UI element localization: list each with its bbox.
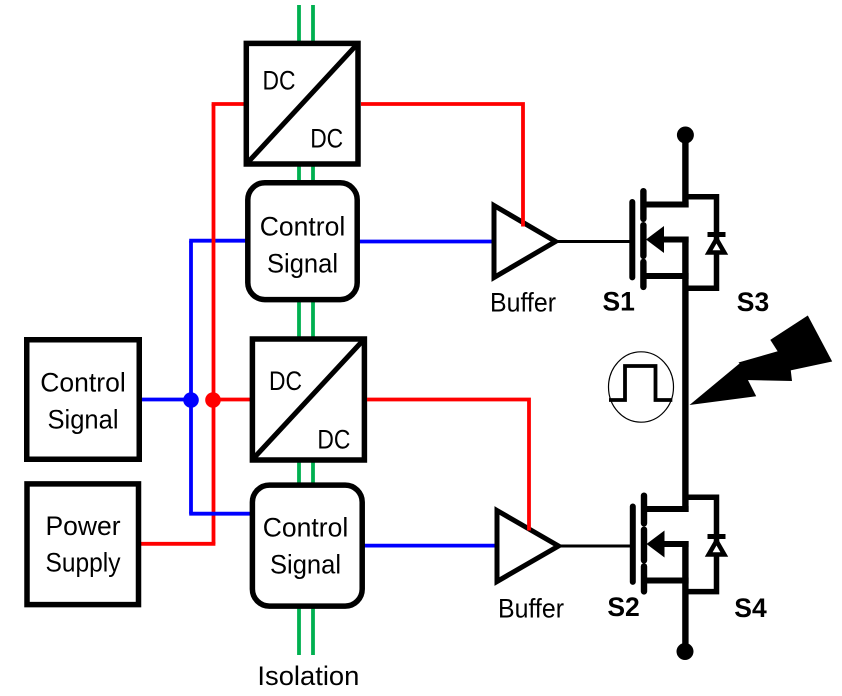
S1 source connection	[643, 273, 688, 279]
svg-text:S2: S2	[607, 592, 639, 622]
S1 drain connection	[643, 202, 688, 208]
wire: gate lead buffer A2 to S2	[559, 545, 633, 548]
svg-text:DC: DC	[317, 424, 350, 454]
svg-text:DC: DC	[269, 366, 302, 396]
svg-text:Buffer: Buffer	[498, 594, 564, 624]
wire: rail S2 source to bottom terminal	[682, 541, 688, 645]
svg-text:Signal: Signal	[270, 550, 341, 580]
S2 channel segment (drain)	[641, 496, 647, 524]
body diode S3 branch	[686, 197, 717, 289]
svg-text:Control: Control	[260, 212, 345, 242]
svg-text:Power: Power	[45, 511, 120, 541]
svg-text:Signal: Signal	[267, 249, 338, 279]
S1 body connection	[662, 237, 689, 243]
diode S4 cathode bar	[708, 534, 726, 539]
wire: red from Power Supply to bus	[139, 542, 215, 546]
terminal: bottom node dot	[677, 643, 694, 660]
lightning bolt head	[770, 316, 832, 371]
S2 drain connection	[644, 506, 689, 512]
svg-text:DC: DC	[310, 124, 343, 154]
wire: gate lead buffer A1 to S1	[556, 240, 633, 243]
S1 channel segment (source)	[640, 262, 646, 287]
S2 body connection	[663, 541, 689, 547]
svg-text:Signal: Signal	[48, 405, 119, 435]
wire: drain rail from top terminal to S1	[682, 135, 688, 208]
S1 body arrow head	[646, 226, 664, 253]
svg-text:Supply: Supply	[46, 548, 122, 578]
S1 channel segment (body)	[640, 225, 646, 256]
MOSFET S1	[632, 191, 688, 287]
svg-text:DC: DC	[263, 65, 296, 95]
diode S3 triangle	[709, 239, 725, 253]
wire: red from DC/DC U1 output to buffer A1 supply	[361, 104, 523, 227]
S2 channel segment (body)	[641, 530, 647, 561]
svg-text:S3: S3	[737, 287, 769, 317]
block: DC/DC converter U1 (top)	[246, 43, 358, 164]
buffer A2 (triangle)	[497, 511, 559, 582]
isolation barrier (green pair below U4)	[299, 607, 313, 655]
wire: blue from bus to Control Signal isolator U4 input	[189, 512, 251, 516]
svg-text:Control: Control	[263, 512, 348, 542]
block: Control Signal isolator U4	[252, 485, 362, 606]
wire: blue from left Control Signal source to node J1	[139, 398, 193, 402]
isolation barrier (green pair above DC/DC U1)	[299, 5, 313, 41]
isolation barrier (green pair between DC/DC U1 and Control Signal isolator U2)	[299, 165, 313, 181]
lightning bolt (fault/EMI symbol) tail	[690, 364, 757, 406]
block: Control Signal source (left)	[27, 340, 140, 460]
wire: blue from U2 output to buffer A1 input	[358, 240, 496, 244]
buffer A1 (triangle)	[494, 206, 556, 278]
diode S4 triangle	[709, 541, 725, 555]
MOSFET S2	[633, 496, 689, 592]
body diode S4 branch	[686, 497, 717, 591]
block: DC/DC converter U3 (middle)	[252, 339, 364, 460]
S2 source connection	[644, 578, 689, 584]
isolation barrier (green pair between DC/DC U3 and Control Signal isolator U4)	[299, 461, 313, 486]
wire: red from DC/DC U3 output to buffer A2 supply	[367, 400, 529, 531]
wire: blue from U4 output to buffer A2 input	[361, 544, 499, 548]
lightning bolt middle chevron	[739, 348, 793, 381]
svg-text:Control: Control	[40, 367, 125, 397]
junction J1 (blue dot)	[183, 392, 199, 408]
S2 gate bar	[630, 507, 636, 582]
junction J2 (red dot)	[205, 392, 221, 408]
isolation barrier (green pair between U2 and DC/DC U3)	[299, 301, 313, 338]
wire: red power bus vertical	[212, 104, 216, 544]
S2 body arrow head	[647, 531, 665, 558]
block: Power Supply	[27, 484, 139, 605]
wire: blue from bus to Control Signal isolator U2 input	[189, 239, 247, 243]
S1 channel segment (drain)	[640, 191, 646, 219]
svg-text:Isolation: Isolation	[257, 661, 359, 691]
pulse source symbol (circle)	[609, 352, 674, 422]
block: Control Signal isolator U2	[248, 183, 357, 300]
svg-text:Buffer: Buffer	[490, 288, 556, 318]
svg-text:S1: S1	[602, 287, 634, 317]
S2 channel segment (source)	[641, 566, 647, 591]
wire: switch-node rail S1 source to S2 drain	[682, 237, 688, 513]
terminal: top node dot	[677, 127, 694, 144]
S1 gate bar	[629, 202, 635, 277]
svg-text:S4: S4	[734, 593, 767, 623]
wire: red from bus to DC/DC U1 input	[212, 102, 247, 106]
pulse waveform	[609, 366, 672, 400]
diode S3 cathode bar	[708, 232, 726, 237]
wire: blue control-signal bus vertical	[189, 241, 193, 514]
wire: red from node J2 to DC/DC U3 input	[210, 398, 253, 402]
